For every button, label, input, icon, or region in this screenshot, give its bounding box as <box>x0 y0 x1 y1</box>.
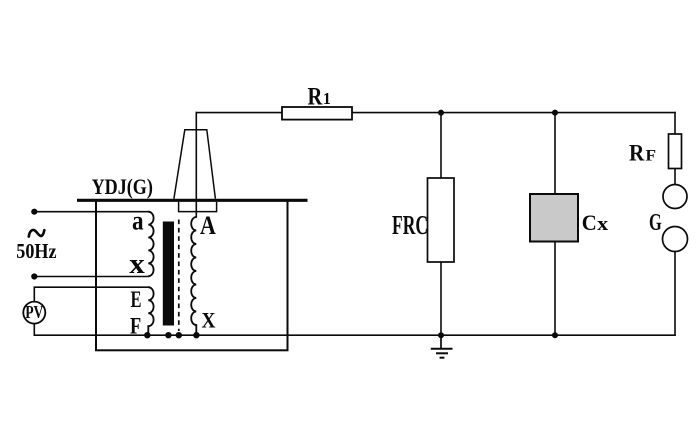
sphere gap G lower sphere <box>663 227 688 252</box>
node core terminal <box>165 332 171 338</box>
node bottom bus / Cx <box>552 332 558 338</box>
wire FRC bottom drop <box>440 262 442 335</box>
svg-text:1: 1 <box>323 89 331 108</box>
sphere gap G upper sphere <box>663 185 687 209</box>
svg-text:C: C <box>582 210 597 235</box>
node top bus / FRC <box>438 110 444 116</box>
wire PV bottom <box>33 324 35 336</box>
source terminal node (x side) <box>31 273 37 279</box>
wire Cx bottom drop <box>554 242 556 336</box>
svg-text:a: a <box>132 204 144 235</box>
svg-text:F: F <box>130 314 141 339</box>
svg-text:E: E <box>131 287 142 312</box>
svg-text:R: R <box>629 140 645 165</box>
svg-text:YDJ(G): YDJ(G) <box>92 174 153 199</box>
ground <box>431 335 453 358</box>
node top bus / Cx <box>552 110 558 116</box>
voltmeter PV <box>23 302 45 324</box>
wire RF to sphere gap <box>674 169 676 185</box>
label ~ (AC source tilde) <box>29 230 45 237</box>
label R1 <box>308 81 331 110</box>
node screen terminal <box>176 332 182 338</box>
label RF <box>629 140 656 165</box>
core bar <box>163 222 174 326</box>
svg-text:x: x <box>129 249 145 280</box>
wire top bus <box>196 112 282 114</box>
node bottom bus / ground <box>438 332 444 338</box>
svg-text:R: R <box>308 81 323 110</box>
wire right branch to RF <box>674 113 676 134</box>
node F terminal <box>144 332 150 338</box>
bushing <box>174 130 217 212</box>
svg-text:x: x <box>597 214 609 235</box>
wire FRC top drop <box>440 113 442 178</box>
source terminal node (a side) <box>31 209 37 215</box>
transformer tank YDJ(G) <box>96 200 288 350</box>
wire bushing riser <box>195 113 197 217</box>
wire sphere gap to bottom bus <box>674 252 676 336</box>
node X terminal <box>193 332 199 338</box>
svg-text:F: F <box>646 147 657 164</box>
wire bottom bus <box>34 334 675 336</box>
svg-text:PV: PV <box>25 302 43 322</box>
label Cx <box>582 210 609 235</box>
divider FRC <box>428 178 455 262</box>
transformer top plate <box>77 199 308 202</box>
winding a-x (primary) <box>148 212 153 276</box>
svg-text:G: G <box>649 209 662 236</box>
svg-text:FRC: FRC <box>392 209 428 240</box>
wire PV to E <box>34 287 148 302</box>
winding E-F (instrument) <box>148 287 153 335</box>
winding A-X (HV) <box>191 217 196 335</box>
core ground lead (dashed screen) <box>178 220 180 332</box>
svg-text:50Hz: 50Hz <box>16 239 57 263</box>
test object Cx <box>530 194 578 242</box>
resistor R1 <box>282 107 352 120</box>
resistor RF <box>669 134 682 169</box>
wire source terminal x <box>34 276 148 278</box>
wire source terminal a <box>34 211 148 213</box>
svg-text:X: X <box>202 308 216 333</box>
svg-text:A: A <box>200 210 216 240</box>
wire Cx top drop <box>554 113 556 194</box>
